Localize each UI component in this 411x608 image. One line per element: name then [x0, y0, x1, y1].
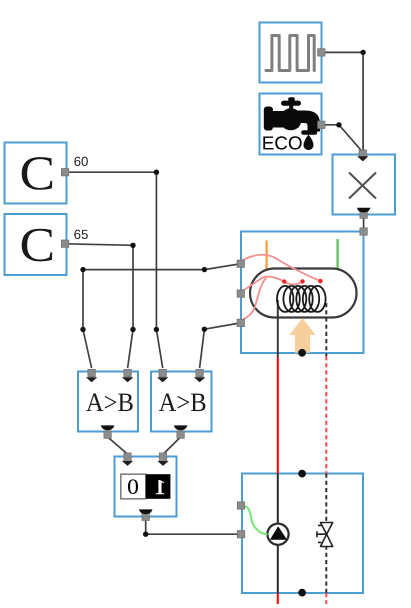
HX internals group [237, 239, 357, 357]
pin switch in A [124, 453, 131, 460]
arrowhead U1 in A [86, 377, 97, 382]
bend dot C2 [130, 243, 135, 248]
pin pump box enable [237, 531, 244, 538]
out triangle U1 [101, 425, 115, 430]
wire switch out down [145, 518, 147, 534]
pin HX left 1 [237, 260, 244, 267]
sensor capillary pin1 to dot3 [237, 255, 320, 281]
connector pins gray squares [61, 49, 367, 538]
pin X1 in [359, 150, 366, 157]
pin switch out [142, 513, 149, 520]
wire HX pin3 slant to bend [204, 323, 240, 329]
constant block C1 value 60 [5, 143, 67, 204]
label 60 [74, 157, 87, 166]
multiplier block X1 [333, 155, 396, 215]
plant node HX bottom [298, 349, 306, 357]
coil outlet pipe black dashed [325, 303, 327, 356]
wire bend down to X1 input [362, 52, 364, 151]
pin U2 out [177, 431, 184, 438]
constant block C2 value 65 [5, 214, 67, 275]
wire to U1 input A [83, 330, 92, 369]
eco tap block B2 [260, 94, 322, 155]
label 65 [74, 230, 87, 239]
pin pump box control [237, 502, 244, 509]
heating coil [277, 286, 326, 312]
wire C1 bend vertical [155, 172, 157, 329]
plant node pump box top [298, 470, 306, 478]
wire bend slant to X1 input [339, 125, 363, 152]
wire HX sensor horizontal [83, 269, 204, 271]
arrowhead switch in B [157, 461, 168, 466]
bend dot row A [80, 327, 85, 332]
sensor capillary pin3 loop [237, 278, 267, 323]
pin pulse out [318, 49, 325, 56]
wire to U2 input B [200, 329, 205, 368]
valve V [321, 523, 333, 535]
pin U1 out [104, 431, 111, 438]
wire eco out to bend [321, 124, 339, 126]
output triangles [101, 208, 371, 514]
wire HX pin1 slant to bend [204, 264, 240, 270]
sensor bulb dot 3 [318, 279, 322, 283]
bend dot row B [130, 327, 135, 332]
wire C1 out horizontal [65, 171, 156, 173]
comparator block U1 A>B [78, 372, 138, 432]
bend dot row D [202, 327, 207, 332]
pin U2 in A [159, 369, 166, 376]
heat flow arrow [289, 318, 315, 353]
pump control wire green [245, 506, 268, 534]
wire C2 to U1 input B [128, 330, 133, 369]
arrowhead U2 in B [194, 377, 205, 382]
heat exchanger plant block HX [241, 232, 364, 354]
bend dot C1 [154, 170, 159, 175]
pin HX left 2 [237, 290, 244, 297]
wire X1 output to HX top pin [363, 215, 365, 230]
out triangle U2 [174, 425, 188, 430]
wire C1 to U2 input A [156, 330, 162, 369]
bend dot pulse [360, 50, 365, 55]
orange supply indicator line [266, 241, 268, 279]
bend dot switch wire [143, 532, 148, 537]
pulse generator block B1 [260, 23, 322, 83]
input arrowheads [86, 156, 369, 466]
pin U1 in A [88, 369, 95, 376]
arrowhead U2 in A [157, 377, 168, 382]
pin U2 in B [196, 369, 203, 376]
bend dot row C [154, 327, 159, 332]
wire U1 out to switch input [108, 437, 128, 454]
wire switch to pump box pin [146, 533, 239, 535]
pump box internals [245, 474, 333, 594]
supply pipe red solid [277, 357, 279, 474]
plant node pump box bottom [298, 589, 306, 597]
bend dot eco [336, 122, 341, 127]
sensor bulb dot 1 [282, 279, 286, 283]
valve pipe black dashed [325, 474, 327, 594]
green return indicator line [336, 239, 339, 276]
wire HX sensor vertical down [82, 270, 84, 330]
pin X1 out [360, 211, 367, 218]
supply pipe red solid below pump box [277, 593, 279, 604]
wire C2 bend vertical [132, 245, 134, 329]
pin C2 out [61, 240, 68, 247]
return pipe red dashed [325, 356, 327, 474]
coil inlet pipe black [277, 300, 279, 357]
wire U2 out to switch input [163, 437, 180, 454]
wire pulse out to bend [321, 51, 363, 53]
arrowhead U1 in B [122, 377, 133, 382]
pump pipe black [277, 474, 279, 594]
pump P [267, 524, 288, 545]
pin eco out [318, 121, 325, 128]
sensor bulb dot 2 [300, 279, 304, 283]
switch block S1 0/1 [115, 457, 177, 517]
pin switch in B [159, 453, 166, 460]
wire C2 out horizontal [65, 244, 133, 246]
arrowhead X1 in [357, 156, 368, 161]
pump/valve plant block P1 [242, 474, 363, 594]
bend dot sensor left [80, 267, 85, 272]
arrowhead switch in A [122, 461, 133, 466]
return pipe red dashed below pump box [325, 593, 327, 604]
out triangle X1 [357, 208, 371, 213]
bend dot sensor right [202, 267, 207, 272]
signal wires [65, 52, 364, 534]
pin HX left 3 [237, 319, 244, 326]
pin HX top [360, 228, 367, 235]
comparator block U2 A>B [151, 372, 212, 432]
out triangle switch [139, 509, 153, 514]
sensor capillary dot1 to dot2 [284, 281, 302, 284]
pin C1 out [61, 169, 68, 176]
pin U1 in B [124, 369, 131, 376]
sensor capillary pin2 to dot1 [237, 277, 284, 294]
tank vessel [250, 269, 357, 318]
